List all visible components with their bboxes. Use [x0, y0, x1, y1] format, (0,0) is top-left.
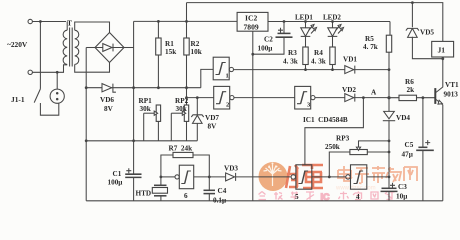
svg-text:J1: J1: [438, 46, 446, 55]
svg-text:100µ: 100µ: [258, 45, 274, 53]
svg-text:5: 5: [295, 193, 299, 201]
junction RP3 left-row: [328, 176, 331, 179]
svg-text:R3: R3: [288, 49, 297, 57]
wire gate5 to gate4: [312, 176, 346, 178]
svg-text:RP3: RP3: [336, 135, 350, 143]
junction switch-live: [39, 20, 42, 23]
zener VD6: [86, 84, 201, 93]
svg-text:VD3: VD3: [224, 165, 238, 173]
svg-text:100µ: 100µ: [108, 179, 124, 187]
wire top frame: [187, 3, 443, 42]
svg-text:8V: 8V: [208, 123, 218, 131]
wire left column (minus): [85, 48, 87, 201]
wire IC2 ground pin: [252, 31, 254, 201]
junction R2-rail: [185, 20, 188, 23]
junction VD5-frame right: [441, 57, 444, 60]
gate U6 schmitt: [175, 165, 194, 189]
resistor R1: [156, 21, 161, 87]
wire emitter down: [442, 105, 444, 201]
svg-text:7809: 7809: [244, 23, 259, 32]
junction bus-left column: [85, 139, 88, 142]
junction row1-A column: [388, 68, 391, 71]
wire switch drop: [39, 22, 41, 89]
wire collector feed: [436, 57, 443, 92]
switch J1-1 blade: [34, 89, 40, 103]
svg-text:R6: R6: [405, 78, 414, 86]
watermark logo circle: [259, 162, 288, 191]
svg-text:47µ: 47µ: [402, 151, 414, 159]
svg-text:VD4: VD4: [396, 114, 410, 122]
watermark slogan 全球最大IC采购网站: [259, 192, 395, 203]
junction LED1-rail: [304, 20, 307, 23]
wire gate6 output row: [161, 176, 175, 178]
wire secondary bottom to bridge: [75, 62, 110, 72]
resistor R7: [161, 152, 209, 177]
svg-text:C3: C3: [398, 183, 407, 191]
socket symbol: [50, 89, 64, 103]
svg-text:4. 3k: 4. 3k: [311, 58, 326, 66]
svg-text:30k: 30k: [176, 105, 187, 113]
wire ground bus bottom: [86, 200, 443, 202]
capacitor C3: [381, 177, 398, 201]
svg-text:C5: C5: [405, 141, 414, 149]
svg-text:VD2: VD2: [342, 86, 356, 94]
junction gate2 input-R2 column: [185, 96, 188, 99]
gate U1 schmitt: [213, 57, 233, 80]
wire gate2 to gate3: [234, 97, 295, 99]
wire gate1 input feed: [201, 69, 213, 87]
capacitor C4: [204, 177, 216, 201]
wire positive rail left segment: [134, 20, 238, 22]
svg-text:15k: 15k: [165, 48, 176, 56]
junction R7 right-row: [208, 176, 211, 179]
potentiometer RP2: [171, 105, 188, 141]
piezo HTD: [152, 177, 167, 201]
junction RP3 right-A column: [388, 151, 391, 154]
junction C2-rail: [283, 20, 286, 23]
junction feedback-row2: [362, 96, 365, 99]
svg-text:30k: 30k: [140, 105, 151, 113]
regulator IC2 7809: [237, 12, 268, 31]
junction LED2-rail: [331, 20, 334, 23]
junction VD4-wiper branch: [388, 140, 391, 143]
junction C2-IC2gnd: [251, 53, 254, 56]
zener VD7: [191, 98, 203, 141]
wire mains neutral rail: [32, 65, 67, 73]
wire gate2 input: [187, 97, 214, 99]
diode VD1: [345, 66, 355, 74]
capacitor C1: [125, 168, 141, 201]
wire switch lower: [40, 103, 58, 115]
svg-text:LED1: LED1: [295, 14, 313, 22]
svg-text:R5: R5: [365, 35, 374, 43]
wire gate1 output row: [234, 69, 390, 71]
svg-text:J1-1: J1-1: [11, 95, 25, 104]
svg-text:C1: C1: [113, 170, 122, 178]
junction VD6 rail-main column: [132, 86, 135, 89]
capacitor C2: [253, 22, 293, 55]
wire R5 top feed: [389, 22, 391, 36]
transistor VT1: [435, 88, 443, 105]
LED2: [328, 22, 344, 48]
wire mains live rail: [32, 21, 66, 23]
terminal upper ~220V: [28, 19, 32, 23]
svg-text:1: 1: [226, 73, 229, 80]
svg-text:T: T: [67, 19, 72, 28]
svg-text:2: 2: [226, 102, 229, 109]
capacitor C5: [416, 98, 434, 201]
svg-text:R1: R1: [165, 40, 174, 48]
svg-text:R7 24k: R7 24k: [169, 145, 193, 153]
wire feedback A to gate5: [305, 98, 364, 165]
junction R1-rail: [157, 20, 160, 23]
svg-text:www.dzsc.com: www.dzsc.com: [335, 186, 376, 192]
svg-text:10µ: 10µ: [396, 193, 408, 201]
potentiometer RP3: [329, 141, 389, 177]
svg-text:250k: 250k: [325, 143, 340, 151]
svg-text:8V: 8V: [104, 105, 114, 113]
wire mid bus: [86, 140, 197, 142]
resistor R6: [389, 95, 435, 100]
gate U4 schmitt: [346, 165, 367, 189]
junction R3-row: [304, 68, 307, 71]
junction bus-main column: [132, 139, 135, 142]
gate U2 schmitt: [214, 86, 234, 109]
wire gate6 input row: [194, 176, 226, 178]
relay coil J1: [432, 41, 454, 57]
resistor R2: [184, 3, 189, 105]
svg-text:4. 7k: 4. 7k: [363, 43, 378, 51]
resistor R4: [330, 47, 335, 70]
resistor R3: [303, 47, 308, 70]
gate U5 schmitt: [291, 165, 312, 189]
watermark text 电子市场网: [338, 166, 417, 184]
svg-text:C4: C4: [218, 187, 227, 195]
junction R7 left-row: [160, 176, 163, 179]
junction gate4 row-A column: [388, 176, 391, 179]
svg-text:~220V: ~220V: [7, 40, 28, 49]
wire bridge left vertex to left column: [86, 47, 95, 49]
junction VD6 rail-left column: [85, 86, 88, 89]
svg-text:IC2: IC2: [245, 14, 257, 23]
wire secondary top to bridge: [75, 22, 110, 33]
wire gate3 output row: [315, 97, 389, 99]
diode VD2: [345, 94, 355, 102]
svg-text:10k: 10k: [191, 48, 202, 56]
svg-text:4. 3k: 4. 3k: [283, 58, 298, 66]
svg-text:2k: 2k: [407, 86, 415, 94]
wire primary top stub: [66, 22, 68, 31]
svg-text:9013: 9013: [444, 91, 459, 99]
svg-text:VD7: VD7: [205, 114, 219, 122]
watermark text 维库: [286, 164, 323, 188]
junction R4-row: [331, 68, 334, 71]
junction socket-neutral: [56, 71, 59, 74]
bridge inner diode: [95, 44, 124, 52]
svg-text:A: A: [371, 89, 377, 97]
zener VD5: [406, 3, 443, 59]
gate U3 schmitt: [295, 86, 315, 109]
wire gate4 input to A column: [367, 176, 389, 178]
wire main positive column: [133, 21, 135, 174]
LED1: [301, 22, 317, 48]
svg-text:6: 6: [184, 192, 188, 200]
transformer T primary coil: [63, 30, 67, 64]
svg-text:C2: C2: [264, 36, 273, 44]
svg-text:VD5: VD5: [420, 29, 434, 37]
wire socket top: [56, 72, 58, 89]
svg-text:VT1: VT1: [445, 81, 459, 89]
svg-text:RP1: RP1: [139, 97, 153, 105]
svg-text:4: 4: [356, 193, 360, 201]
bridge rectifier diamond: [95, 33, 124, 63]
zener VD4: [383, 111, 395, 176]
transformer core: [70, 28, 73, 67]
transformer T secondary coil: [75, 30, 79, 64]
svg-text:R4: R4: [314, 49, 323, 57]
diode VD3: [226, 173, 291, 181]
junction R2-VD6 rail: [185, 86, 188, 89]
svg-text:0.1µ: 0.1µ: [213, 197, 227, 205]
potentiometer RP1: [144, 105, 161, 141]
terminal lower: [28, 70, 32, 74]
junction VD5-top frame: [411, 1, 414, 4]
wire positive rail right segment: [268, 21, 390, 23]
svg-text:VD1: VD1: [343, 56, 357, 64]
resistor R5: [386, 35, 391, 111]
svg-text:VD6: VD6: [100, 96, 114, 104]
svg-text:HTD: HTD: [136, 190, 152, 198]
svg-text:IC1 CD4584B: IC1 CD4584B: [303, 116, 348, 124]
svg-text:R2: R2: [191, 40, 200, 48]
node A: [387, 96, 390, 99]
wire bridge right vertex to main column: [124, 47, 134, 49]
junction VD7-gate2 wire: [196, 96, 199, 99]
junction C5-base wire: [422, 96, 425, 99]
junction R1-VD6 rail: [157, 86, 160, 89]
